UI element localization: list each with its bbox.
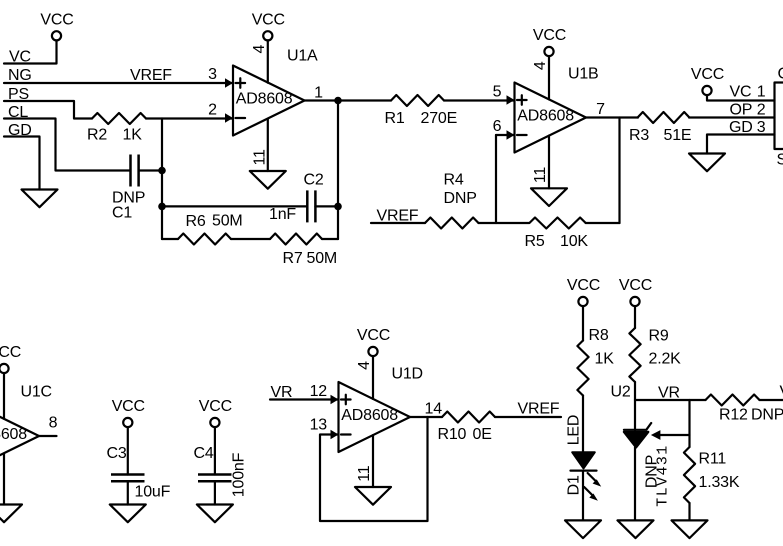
resistor R6 50M [178,234,231,245]
U1A pin 4 VCC [251,40,268,82]
power port VCC (U1D) [357,327,390,356]
label R11 1.33K [699,451,740,492]
svg-text:U1A: U1A [287,48,318,65]
wire VCC to C3 [127,427,129,474]
svg-text:11: 11 [251,149,268,166]
svg-text:12: 12 [310,383,328,400]
svg-text:R10: R10 [438,426,467,443]
wire U1B pin 6 [496,134,515,136]
wire R9 to VR node [634,382,636,400]
wire R6 to R7 [231,238,270,240]
power port VCC (U1B) [533,27,566,56]
wire VCC to R9 [634,306,636,328]
svg-text:VCC: VCC [567,277,600,294]
label DNP C1 [112,190,145,222]
ground (U1A) [250,171,286,189]
svg-text:5: 5 [493,84,502,101]
wire vertical node left [161,119,163,240]
wire R5 to feedback [586,222,620,224]
resistor R2 1K [92,113,146,124]
label R4 DNP [444,172,477,208]
svg-text:4: 4 [356,361,373,370]
svg-text:U1C: U1C [21,384,52,401]
resistor R1 270E [391,95,444,106]
label R12 DNP [719,407,783,424]
svg-text:LED: LED [566,415,583,446]
svg-text:R9: R9 [649,328,669,345]
wire R7 to output node [322,238,338,240]
ground (U1C) [0,505,22,523]
label R1 270E [385,110,458,127]
pin label OP 2 [730,102,766,119]
ground (connector) [689,154,725,172]
svg-text:C1: C1 [112,205,132,222]
label R5 10K [525,233,589,250]
svg-text:4: 4 [532,61,549,70]
svg-text:DNP: DNP [751,407,783,424]
U1D pin 4 VCC [356,356,373,399]
svg-text:VCC: VCC [0,344,21,361]
svg-text:VCC: VCC [252,12,285,29]
pin label GD 3 [729,119,766,136]
svg-text:AD8608: AD8608 [0,426,27,443]
svg-text:2: 2 [208,102,217,119]
svg-text:R3: R3 [629,127,649,144]
shunt regulator U2 TLV431 DNP [624,400,690,520]
U1C pin 11 to ground [3,453,5,504]
svg-text:1: 1 [757,84,766,101]
svg-text:50M: 50M [212,213,243,230]
resistor R4 DNP [425,218,479,229]
svg-text:1K: 1K [123,127,143,144]
wire node to C2 [162,205,307,207]
U1B pin 11 to ground [532,136,549,189]
svg-text:VCC: VCC [112,398,145,415]
wire VC to VCC port [4,41,57,64]
power port VCC (connector) [691,66,724,95]
svg-text:11: 11 [532,167,549,184]
svg-text:51E: 51E [664,127,692,144]
label DNP TLV431 [644,444,672,506]
pin label VC 1 [730,84,766,101]
wire D1 to ground [582,471,584,521]
wire VR to U1D pin 12 [270,398,339,400]
svg-text:2: 2 [757,102,766,119]
wire VR node to R12 [635,399,706,401]
junction at C1 output [158,167,166,175]
wire U1B output to R3 [586,116,638,118]
svg-text:R7: R7 [283,250,303,267]
svg-text:U1B: U1B [568,66,599,83]
wire U1A output [305,99,392,101]
ground (U2) [618,520,654,538]
op-amp U1A AD8608 [225,66,305,136]
label R6 50M [186,213,243,231]
label C2 1nF [269,172,324,224]
svg-text:2.2K: 2.2K [649,351,682,368]
svg-text:13: 13 [310,417,328,434]
svg-text:VCC: VCC [40,12,73,29]
wire U1D feedback to pin 13 [320,417,428,521]
wire connector pin 3 to ground [707,135,775,154]
connector CN (edge) [775,66,783,169]
capacitor C2 1nF [307,190,315,222]
wire feedback vertical to R5 [618,118,620,224]
wire C4 to ground [214,481,216,504]
svg-text:R2: R2 [87,127,107,144]
ground (C3) [110,505,146,523]
svg-text:VREF: VREF [518,401,560,418]
resistor R11 1.33K [684,447,695,503]
power port VCC (C4) [199,398,232,427]
LED D1 [571,452,602,500]
svg-text:4: 4 [251,45,268,54]
junction left node / C2 wire [158,203,166,211]
svg-text:AD8608: AD8608 [517,107,574,124]
svg-text:NG: NG [8,67,32,84]
svg-text:D1: D1 [566,475,583,495]
svg-text:R5: R5 [525,233,545,250]
svg-text:CN: CN [778,66,783,83]
svg-text:R8: R8 [589,327,609,344]
ground (D1) [565,520,601,538]
resistor R3 51E [638,112,690,123]
svg-text:C3: C3 [107,445,127,462]
svg-text:VCC: VCC [780,384,783,401]
label R8 1K [589,327,615,368]
resistor R10 0E [442,412,495,423]
wire GD to ground [4,137,40,190]
svg-text:C4: C4 [194,445,214,462]
op-amp U1D AD8608 [331,382,411,452]
wire VCC to C4 [214,427,216,474]
capacitor C4 100nF [198,475,232,482]
svg-text:1K: 1K [595,351,615,368]
resistor R8 1K [577,341,588,396]
svg-text:SM: SM [777,152,783,169]
svg-text:TLV431: TLV431 [655,444,672,506]
svg-text:100nF: 100nF [231,452,248,497]
wire R1 to U1B pin 5 [444,99,515,101]
power port VCC (U1C) [0,344,21,373]
wire output node vertical [337,101,339,240]
power port VCC (VC pullup) [40,12,73,41]
ground (GD) [22,190,58,208]
wire R12 to VCC (edge) [760,399,783,401]
wire U1D output [410,416,442,418]
svg-text:1.33K: 1.33K [699,474,740,491]
svg-text:R6: R6 [186,213,206,230]
svg-text:U2: U2 [611,384,631,401]
capacitor C1 DNP [131,155,139,187]
svg-text:AD8608: AD8608 [236,90,293,107]
label R2 1K [87,127,142,144]
op-amp U1B AD8608 [507,83,587,153]
op-amp U1C AD8608 [0,401,39,471]
svg-text:10K: 10K [560,233,588,250]
svg-text:VREF: VREF [130,67,172,84]
svg-text:DNP: DNP [444,190,477,207]
label LED / D1 [566,415,583,496]
wire U1B pin 6 vertical [495,135,497,223]
svg-text:R1: R1 [385,110,405,127]
power port VCC (U1A) [252,12,285,41]
capacitor C3 10uF [111,475,145,482]
resistor R7 50M [270,234,322,245]
wire to R6 [162,238,178,240]
power port VCC (R8) [567,277,600,306]
svg-text:10uF: 10uF [135,484,171,501]
svg-text:3: 3 [208,66,217,83]
svg-text:C2: C2 [304,172,324,189]
wire VR to R11 [688,400,690,447]
resistor R12 DNP [706,395,760,406]
svg-text:R4: R4 [444,172,464,189]
svg-text:U1D: U1D [392,366,423,383]
svg-text:OP: OP [730,102,753,119]
wire R8 to D1 [582,396,584,452]
wire R4 to R5 [479,222,530,224]
resistor R9 2.2K [629,328,640,382]
svg-text:VCC: VCC [199,398,232,415]
U1A pin 11 to ground [251,119,268,171]
svg-text:1: 1 [314,85,323,102]
svg-text:14: 14 [425,401,443,418]
label R3 51E [629,127,691,144]
wire R2 to U1A pin 2 [146,117,233,119]
ground (U1D) [355,487,391,505]
power port VCC (C3) [112,398,145,427]
wire VREF to R4 [371,222,425,224]
svg-text:8: 8 [49,415,58,432]
wire R11 to ground [688,503,690,520]
wire CL to C1 [4,119,130,171]
svg-text:VCC: VCC [357,327,390,344]
svg-text:AD8608: AD8608 [341,407,398,424]
svg-text:11: 11 [356,465,373,482]
svg-text:VCC: VCC [619,277,652,294]
ground (U1B) [531,188,567,206]
label C3 10uF [107,445,171,501]
wire R3 to connector pin 2 [689,116,775,118]
svg-text:6: 6 [493,118,502,135]
label R10 0E [438,426,492,443]
wire NG/VREF to U1A pin 3 [4,82,233,84]
wire C1 to node [139,169,162,171]
svg-text:VCC: VCC [533,27,566,44]
wire VCC to connector pin 1 [707,95,775,100]
junction U1A output [334,97,342,105]
wire PS to R2 [4,101,92,119]
junction C2/output vertical [334,203,342,211]
wire U1C output stub [39,435,57,437]
wire VCC to R8 [582,306,584,340]
svg-text:R11: R11 [699,451,727,468]
svg-text:50M: 50M [307,250,338,267]
wire R10 to VREF [495,416,561,418]
svg-text:VCC: VCC [691,66,724,83]
ground (R11) [672,520,708,538]
wire C2 to output node [315,205,338,207]
wire C3 to ground [127,481,129,504]
svg-text:270E: 270E [421,110,458,127]
power port VCC (R9) [619,277,652,306]
svg-text:0E: 0E [473,426,492,443]
svg-text:VC: VC [730,84,752,101]
svg-text:7: 7 [596,101,605,118]
label C4 100nF [194,445,248,497]
label R7 50M [283,250,338,267]
ground (C4) [197,505,233,523]
label R9 2.2K [649,328,682,368]
U1C pin 4 VCC [3,373,5,419]
svg-text:R12: R12 [719,407,748,424]
resistor R5 10K [529,218,585,229]
U1D pin 11 to ground [356,435,373,487]
svg-text:1nF: 1nF [269,206,296,223]
U1B pin 4 VCC [532,56,549,99]
